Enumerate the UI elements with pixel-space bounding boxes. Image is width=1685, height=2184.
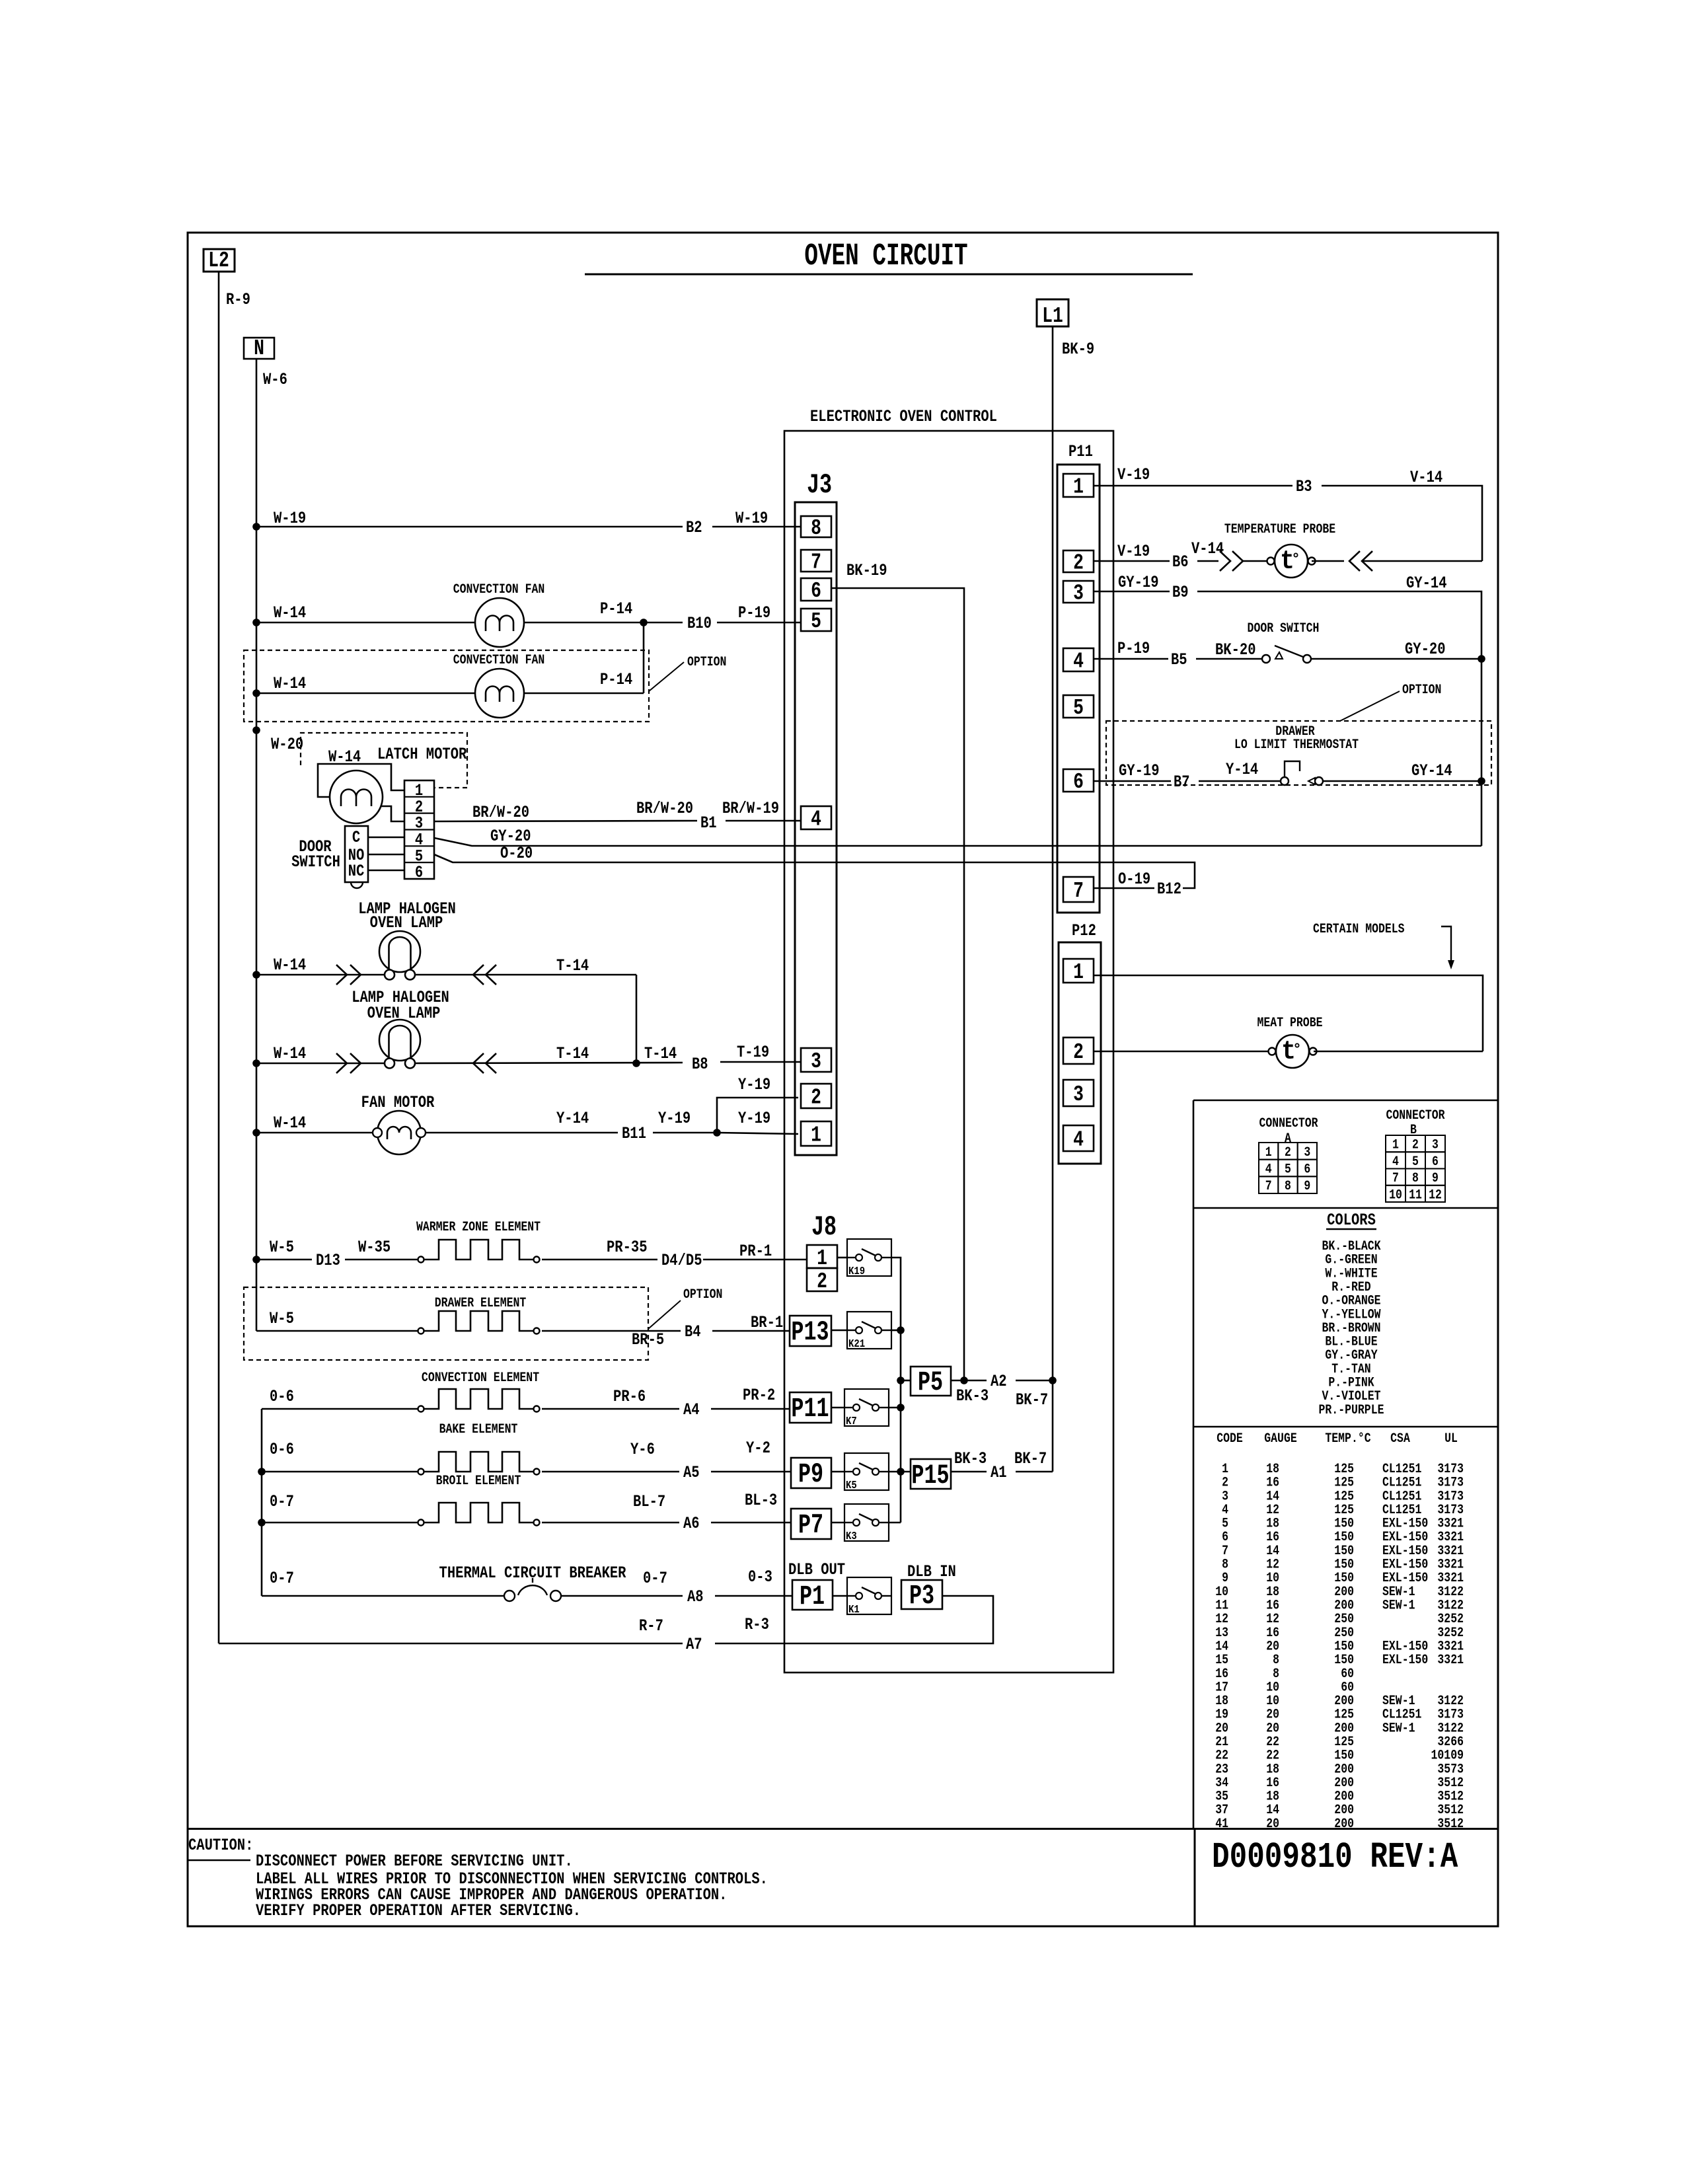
door switch plunger xyxy=(351,882,363,888)
svg-text:OVEN LAMP: OVEN LAMP xyxy=(370,913,443,932)
svg-text:O.-ORANGE: O.-ORANGE xyxy=(1322,1293,1380,1308)
svg-text:20: 20 xyxy=(1266,1817,1279,1832)
svg-text:O-19: O-19 xyxy=(1118,870,1150,888)
svg-text:4: 4 xyxy=(1392,1154,1399,1170)
svg-text:T.-TAN: T.-TAN xyxy=(1331,1361,1370,1376)
svg-text:7: 7 xyxy=(1265,1179,1272,1194)
junction warmer bus xyxy=(252,1256,260,1263)
svg-text:5: 5 xyxy=(1285,1162,1291,1177)
wire O-3 xyxy=(715,1595,792,1597)
svg-text:BK-7: BK-7 xyxy=(1014,1449,1047,1468)
junction lamp1 bus xyxy=(252,971,260,979)
svg-text:D0009810 REV:A: D0009810 REV:A xyxy=(1212,1836,1458,1878)
thermostat lo limit xyxy=(1281,777,1289,785)
option leader drawer xyxy=(648,1300,681,1329)
svg-text:LO LIMIT THERMOSTAT: LO LIMIT THERMOSTAT xyxy=(1234,737,1359,753)
svg-text:L2: L2 xyxy=(208,248,229,273)
plug chevrons lamp1 left xyxy=(336,965,347,985)
svg-text:16: 16 xyxy=(1266,1776,1279,1791)
svg-text:W-14: W-14 xyxy=(274,1113,306,1132)
wire W-14 fan1 xyxy=(256,622,475,624)
svg-text:3173: 3173 xyxy=(1437,1462,1464,1477)
wire P-14 fan2 xyxy=(524,693,644,695)
caution dash xyxy=(187,1860,250,1861)
svg-text:2: 2 xyxy=(1222,1475,1228,1490)
connector P11 pin 4 box xyxy=(1063,648,1094,671)
svg-text:0-7: 0-7 xyxy=(270,1492,294,1511)
wire P12-2 meat probe xyxy=(1094,1051,1271,1053)
svg-text:CL1251: CL1251 xyxy=(1382,1707,1421,1722)
svg-text:V-19: V-19 xyxy=(1117,465,1150,484)
svg-text:9: 9 xyxy=(1304,1179,1310,1194)
svg-text:250: 250 xyxy=(1334,1625,1354,1640)
wire lamp1 to lamp2 link xyxy=(636,975,638,1063)
svg-text:OPTION: OPTION xyxy=(1402,683,1441,698)
svg-text:3252: 3252 xyxy=(1437,1625,1464,1640)
wire BK-20 xyxy=(1196,658,1262,660)
junction GY-20 xyxy=(1478,655,1485,663)
connector P12 pin 2 box xyxy=(1063,1037,1094,1064)
svg-text:2: 2 xyxy=(811,1085,821,1110)
svg-text:L1: L1 xyxy=(1042,303,1063,328)
relay K19 xyxy=(847,1239,891,1277)
svg-text:8: 8 xyxy=(811,515,821,541)
wire P15 to A1 xyxy=(951,1471,987,1473)
svg-text:Y-6: Y-6 xyxy=(630,1440,655,1458)
connector P11 pin 6 box xyxy=(1063,769,1094,792)
svg-text:V-19: V-19 xyxy=(1117,542,1150,560)
wire P1 to K1 xyxy=(833,1595,847,1597)
svg-text:UL: UL xyxy=(1444,1431,1458,1447)
wire meat probe right xyxy=(1314,1051,1483,1053)
motor latch motor winding xyxy=(341,790,371,807)
heating element bake xyxy=(418,1452,540,1475)
connector P15 box xyxy=(911,1459,951,1489)
svg-text:EXL-150: EXL-150 xyxy=(1382,1557,1428,1572)
code table row 14 xyxy=(1215,1639,1464,1654)
svg-text:T-14: T-14 xyxy=(556,956,589,975)
svg-text:16: 16 xyxy=(1266,1625,1279,1640)
svg-text:P5: P5 xyxy=(918,1367,943,1398)
svg-text:3122: 3122 xyxy=(1437,1721,1464,1736)
title underline xyxy=(585,274,1193,276)
svg-text:3321: 3321 xyxy=(1437,1557,1464,1572)
frame divider caution xyxy=(188,1828,1498,1830)
svg-text:200: 200 xyxy=(1334,1803,1354,1818)
wire PR-35 xyxy=(542,1259,657,1261)
svg-text:200: 200 xyxy=(1334,1584,1354,1599)
svg-text:W-14: W-14 xyxy=(274,956,306,974)
relay K3 xyxy=(844,1504,889,1542)
wire P7 to K3 xyxy=(831,1522,844,1524)
connector A cell 5 xyxy=(1278,1160,1297,1177)
svg-text:P7: P7 xyxy=(798,1510,823,1541)
svg-text:P-14: P-14 xyxy=(600,599,632,618)
motor fan motor xyxy=(377,1111,421,1154)
wire GY-14 B9 xyxy=(1197,591,1481,846)
svg-text:16: 16 xyxy=(1266,1475,1279,1490)
plug chevrons lamp1 right xyxy=(473,965,484,985)
wire bus to P5 xyxy=(901,1380,911,1382)
svg-text:ELECTRONIC OVEN CONTROL: ELECTRONIC OVEN CONTROL xyxy=(810,407,997,426)
svg-text:SWITCH: SWITCH xyxy=(291,852,340,871)
svg-text:16: 16 xyxy=(1215,1666,1228,1681)
svg-text:22: 22 xyxy=(1266,1748,1279,1763)
wire PR-6 xyxy=(542,1408,679,1410)
svg-text:20: 20 xyxy=(1266,1639,1279,1654)
svg-text:B12: B12 xyxy=(1157,880,1181,898)
svg-text:200: 200 xyxy=(1334,1694,1354,1709)
wire NC to pin6 xyxy=(368,870,404,871)
svg-text:TEMPERATURE PROBE: TEMPERATURE PROBE xyxy=(1224,522,1335,537)
wire GY-20 long xyxy=(434,838,1481,846)
svg-text:CONNECTOR: CONNECTOR xyxy=(1386,1108,1444,1123)
code table row 20 xyxy=(1215,1721,1464,1736)
svg-text:SEW-1: SEW-1 xyxy=(1382,1694,1415,1709)
svg-text:2: 2 xyxy=(1073,1039,1084,1065)
svg-text:3573: 3573 xyxy=(1437,1762,1464,1777)
wire W-19 right xyxy=(712,526,801,528)
svg-text:18: 18 xyxy=(1266,1516,1279,1531)
svg-text:CERTAIN MODELS: CERTAIN MODELS xyxy=(1313,922,1405,937)
code table row 19 xyxy=(1215,1707,1464,1722)
svg-text:1: 1 xyxy=(1073,960,1084,985)
junction broil bus xyxy=(258,1519,266,1526)
relay K1 xyxy=(847,1577,891,1616)
svg-text:5: 5 xyxy=(811,609,821,634)
svg-text:CL1251: CL1251 xyxy=(1382,1462,1421,1477)
legend box top xyxy=(1193,1100,1498,1102)
svg-text:DLB IN: DLB IN xyxy=(907,1562,956,1581)
latch motor dashed outline xyxy=(301,733,467,788)
svg-text:A1: A1 xyxy=(991,1463,1007,1482)
svg-text:EXL-150: EXL-150 xyxy=(1382,1653,1428,1668)
svg-text:OVEN CIRCUIT: OVEN CIRCUIT xyxy=(804,239,967,274)
svg-text:3: 3 xyxy=(1222,1489,1228,1504)
svg-text:CONVECTION FAN: CONVECTION FAN xyxy=(453,653,545,668)
svg-text:3: 3 xyxy=(811,1049,821,1074)
frame divider titleblock xyxy=(1194,1829,1196,1927)
connector P5 box xyxy=(911,1367,951,1396)
door switch contact box xyxy=(345,826,368,882)
relay K5 xyxy=(844,1453,889,1491)
junction K5 bus xyxy=(897,1468,905,1476)
latch strip divider 3 xyxy=(404,829,434,830)
svg-text:3512: 3512 xyxy=(1437,1776,1464,1791)
connector B cell 9 xyxy=(1425,1169,1445,1186)
lamp oven lamp 2 xyxy=(379,1020,420,1069)
svg-text:60: 60 xyxy=(1341,1680,1354,1695)
connector P12 pin 3 box xyxy=(1063,1080,1094,1106)
svg-text:150: 150 xyxy=(1334,1653,1354,1668)
svg-text:3173: 3173 xyxy=(1437,1475,1464,1490)
svg-text:P15: P15 xyxy=(911,1460,949,1491)
svg-text:TEMP.°C: TEMP.°C xyxy=(1325,1431,1370,1447)
svg-text:P13: P13 xyxy=(791,1317,829,1348)
latch strip divider 5 xyxy=(404,862,434,863)
svg-text:CAUTION:: CAUTION: xyxy=(188,1836,253,1854)
wire fan1-fan2 link xyxy=(643,622,645,693)
svg-text:Y-2: Y-2 xyxy=(746,1439,770,1457)
wire Y-19 to J3 pin2 xyxy=(717,1098,798,1133)
svg-text:19: 19 xyxy=(1215,1707,1228,1722)
svg-text:A7: A7 xyxy=(686,1635,702,1653)
svg-text:B7: B7 xyxy=(1174,772,1190,791)
connector B cell 8 xyxy=(1405,1169,1425,1186)
code table row 5 xyxy=(1222,1516,1464,1531)
svg-text:3512: 3512 xyxy=(1437,1803,1464,1818)
lamp oven lamp 1 xyxy=(379,931,420,980)
connector P11 pin 1 box xyxy=(1063,474,1094,497)
svg-text:6: 6 xyxy=(1304,1162,1310,1177)
svg-text:22: 22 xyxy=(1215,1748,1228,1763)
svg-text:60: 60 xyxy=(1341,1666,1354,1681)
svg-text:B3: B3 xyxy=(1296,477,1312,496)
svg-text:4: 4 xyxy=(1222,1503,1228,1518)
svg-text:A: A xyxy=(1285,1131,1291,1147)
wire temp probe right xyxy=(1312,560,1344,562)
svg-text:3: 3 xyxy=(1432,1137,1439,1152)
svg-text:10: 10 xyxy=(1389,1187,1402,1203)
wire J8 pin1 to K19 xyxy=(837,1257,847,1259)
svg-text:GY-19: GY-19 xyxy=(1118,573,1159,591)
svg-text:2: 2 xyxy=(1285,1145,1291,1160)
svg-text:22: 22 xyxy=(1266,1735,1279,1750)
svg-text:Y-19: Y-19 xyxy=(738,1109,770,1127)
svg-text:150: 150 xyxy=(1334,1544,1354,1559)
connector A cell 2 xyxy=(1278,1143,1297,1160)
svg-text:P.-PINK: P.-PINK xyxy=(1328,1375,1374,1390)
connector P7 box xyxy=(791,1509,831,1539)
svg-text:W-14: W-14 xyxy=(274,674,306,693)
svg-text:150: 150 xyxy=(1334,1639,1354,1654)
svg-text:1: 1 xyxy=(1265,1145,1272,1160)
svg-text:Y-19: Y-19 xyxy=(658,1109,691,1127)
temperature probe xyxy=(1267,545,1316,578)
connector A cell 8 xyxy=(1278,1176,1297,1193)
svg-text:200: 200 xyxy=(1334,1789,1354,1804)
svg-text:GY.-GRAY: GY.-GRAY xyxy=(1325,1348,1377,1363)
svg-text:3252: 3252 xyxy=(1437,1612,1464,1627)
connector P11J8 box xyxy=(790,1392,831,1423)
svg-text:FAN MOTOR: FAN MOTOR xyxy=(361,1093,435,1111)
code table row 12 xyxy=(1215,1612,1464,1627)
wire R-7 to L2 bus xyxy=(219,1643,683,1645)
svg-text:3173: 3173 xyxy=(1437,1707,1464,1722)
wire K21 to bus xyxy=(891,1330,901,1332)
border frame xyxy=(188,233,1498,1926)
svg-text:CONVECTION ELEMENT: CONVECTION ELEMENT xyxy=(422,1371,539,1386)
wire K7 to bus xyxy=(889,1407,901,1409)
wire P9 to K5 xyxy=(831,1471,844,1473)
svg-text:D13: D13 xyxy=(316,1251,340,1269)
option box convection fan 2 xyxy=(244,650,649,722)
wire V-19 B6 xyxy=(1094,560,1170,562)
svg-text:0-3: 0-3 xyxy=(748,1567,772,1586)
wire L1 bus BK-9 xyxy=(1052,326,1054,1380)
svg-text:W-5: W-5 xyxy=(270,1238,294,1256)
svg-text:V-14: V-14 xyxy=(1191,539,1224,558)
wire Y-19 to J3 pin1 xyxy=(717,1133,798,1134)
connector B cell 5 xyxy=(1405,1152,1425,1168)
connector J8 pin1 box xyxy=(807,1245,837,1268)
svg-text:W-20: W-20 xyxy=(271,735,303,753)
svg-text:2: 2 xyxy=(817,1269,827,1294)
connector A cell 3 xyxy=(1298,1143,1317,1160)
wire latch motor to pin1 xyxy=(318,764,404,797)
wire A1 riser xyxy=(1052,1380,1054,1472)
svg-text:A4: A4 xyxy=(683,1400,700,1419)
wire BL-7 xyxy=(542,1522,679,1524)
svg-text:3321: 3321 xyxy=(1437,1544,1464,1559)
svg-text:7: 7 xyxy=(1073,878,1084,903)
svg-text:W-19: W-19 xyxy=(735,509,768,527)
svg-text:BL.-BLUE: BL.-BLUE xyxy=(1325,1334,1377,1349)
code table row 23 xyxy=(1215,1762,1464,1777)
svg-text:18: 18 xyxy=(1266,1584,1279,1599)
svg-text:K21: K21 xyxy=(848,1337,865,1351)
svg-text:PR-1: PR-1 xyxy=(739,1242,772,1260)
wire K3 to bus xyxy=(889,1522,901,1524)
svg-text:125: 125 xyxy=(1334,1707,1354,1722)
svg-text:CONNECTOR: CONNECTOR xyxy=(1259,1116,1318,1131)
plug chevrons lamp2 right xyxy=(473,1053,484,1073)
wire L2 bus R-9 xyxy=(218,272,220,1643)
svg-text:13: 13 xyxy=(1215,1625,1228,1640)
svg-text:J8: J8 xyxy=(811,1212,837,1243)
svg-text:8: 8 xyxy=(1273,1653,1279,1668)
svg-text:K3: K3 xyxy=(846,1530,857,1543)
connector P11 outline xyxy=(1057,465,1100,913)
wire A1 to riser xyxy=(1016,1471,1053,1473)
heating element drawer xyxy=(418,1311,540,1334)
svg-text:CL1251: CL1251 xyxy=(1382,1475,1421,1490)
code table row 15 xyxy=(1215,1653,1464,1668)
junction fan2 bus xyxy=(252,689,260,697)
svg-text:11: 11 xyxy=(1409,1187,1422,1203)
wire O-7 broil xyxy=(262,1522,418,1524)
svg-text:12: 12 xyxy=(1429,1187,1442,1203)
svg-text:GY-14: GY-14 xyxy=(1411,761,1452,780)
wire BL-3 xyxy=(711,1522,791,1524)
svg-text:MEAT PROBE: MEAT PROBE xyxy=(1257,1016,1323,1031)
svg-text:R-3: R-3 xyxy=(745,1615,769,1634)
svg-text:4: 4 xyxy=(1265,1162,1272,1177)
svg-text:T-14: T-14 xyxy=(556,1044,589,1063)
connector B cell 11 xyxy=(1405,1186,1425,1202)
svg-text:3122: 3122 xyxy=(1437,1598,1464,1613)
wire P13 to K21 xyxy=(831,1330,847,1332)
electronic oven control box xyxy=(784,431,1113,1673)
svg-text:P3: P3 xyxy=(909,1581,934,1612)
wire P-19 B5 xyxy=(1094,658,1168,660)
svg-text:P11: P11 xyxy=(1068,442,1093,461)
svg-text:8: 8 xyxy=(1222,1557,1228,1572)
wire K5 to P15 xyxy=(889,1471,911,1473)
connector B cell 6 xyxy=(1425,1152,1445,1168)
latch strip divider 2 xyxy=(404,813,434,814)
svg-text:200: 200 xyxy=(1334,1776,1354,1791)
svg-text:BK-9: BK-9 xyxy=(1062,340,1094,358)
connector A cell 4 xyxy=(1259,1160,1278,1177)
wire temp probe return xyxy=(1362,560,1482,562)
connector J3 pin 1 box xyxy=(801,1121,831,1146)
svg-text:150: 150 xyxy=(1334,1571,1354,1586)
connector P11 pin 2 box xyxy=(1063,550,1094,572)
heating element broil xyxy=(418,1503,540,1526)
plug chevrons temp probe left xyxy=(1220,551,1230,571)
svg-text:34: 34 xyxy=(1215,1776,1228,1791)
wire P12-1 certain models xyxy=(1094,975,1483,1051)
svg-text:PR.-PURPLE: PR.-PURPLE xyxy=(1319,1402,1384,1417)
svg-text:EXL-150: EXL-150 xyxy=(1382,1516,1428,1531)
svg-text:3321: 3321 xyxy=(1437,1530,1464,1545)
wire W-19 left xyxy=(256,526,683,528)
connector A cell 7 xyxy=(1259,1176,1278,1193)
wire BR-1 xyxy=(712,1330,790,1332)
svg-text:W.-WHITE: W.-WHITE xyxy=(1325,1266,1377,1281)
svg-text:O-20: O-20 xyxy=(500,844,533,862)
svg-text:D4/D5: D4/D5 xyxy=(661,1251,702,1269)
connector P12 pin 1 box xyxy=(1063,959,1094,983)
svg-text:PR-6: PR-6 xyxy=(613,1387,646,1406)
code table row 34 xyxy=(1215,1776,1464,1791)
connector B cell 4 xyxy=(1386,1152,1405,1168)
svg-text:P1: P1 xyxy=(800,1581,825,1612)
svg-text:14: 14 xyxy=(1266,1544,1279,1559)
svg-text:15: 15 xyxy=(1215,1653,1228,1668)
svg-text:3: 3 xyxy=(1073,1082,1084,1107)
svg-text:0-6: 0-6 xyxy=(270,1440,294,1458)
code table row 4 xyxy=(1222,1503,1464,1518)
wire K19 to bus xyxy=(891,1258,901,1523)
svg-text:BK-19: BK-19 xyxy=(846,561,887,580)
svg-text:CL1251: CL1251 xyxy=(1382,1489,1421,1504)
svg-text:B2: B2 xyxy=(686,518,702,537)
svg-text:BR-5: BR-5 xyxy=(632,1330,664,1349)
svg-text:0-7: 0-7 xyxy=(270,1569,294,1587)
code table row 21 xyxy=(1215,1735,1464,1750)
svg-text:t: t xyxy=(1280,546,1294,576)
svg-text:6: 6 xyxy=(1222,1530,1228,1545)
svg-text:10: 10 xyxy=(1266,1694,1279,1709)
svg-text:OPTION: OPTION xyxy=(683,1287,722,1302)
svg-text:P-19: P-19 xyxy=(1117,639,1150,658)
code table row 13 xyxy=(1215,1625,1464,1640)
svg-text:SEW-1: SEW-1 xyxy=(1382,1721,1415,1736)
svg-text:4: 4 xyxy=(1073,649,1084,674)
junction fan1 bus xyxy=(252,619,260,626)
svg-text:5: 5 xyxy=(1222,1516,1228,1531)
svg-text:18: 18 xyxy=(1266,1462,1279,1477)
connector P13 box xyxy=(790,1316,831,1346)
legend box left xyxy=(1193,1100,1195,1829)
svg-text:125: 125 xyxy=(1334,1475,1354,1490)
svg-text:P-19: P-19 xyxy=(738,603,770,622)
svg-text:A6: A6 xyxy=(683,1514,700,1532)
svg-text:J3: J3 xyxy=(807,470,832,501)
junction L1 A2 xyxy=(1049,1376,1057,1384)
colors underline xyxy=(1326,1228,1376,1230)
connector P9 box xyxy=(791,1458,831,1488)
junction K7 bus xyxy=(897,1404,905,1412)
svg-text:8: 8 xyxy=(1412,1171,1419,1186)
svg-text:K5: K5 xyxy=(846,1479,857,1492)
svg-text:8: 8 xyxy=(1273,1666,1279,1681)
wire O-6 bake xyxy=(262,1471,418,1473)
svg-text:12: 12 xyxy=(1215,1612,1228,1627)
svg-text:W-5: W-5 xyxy=(270,1309,294,1328)
